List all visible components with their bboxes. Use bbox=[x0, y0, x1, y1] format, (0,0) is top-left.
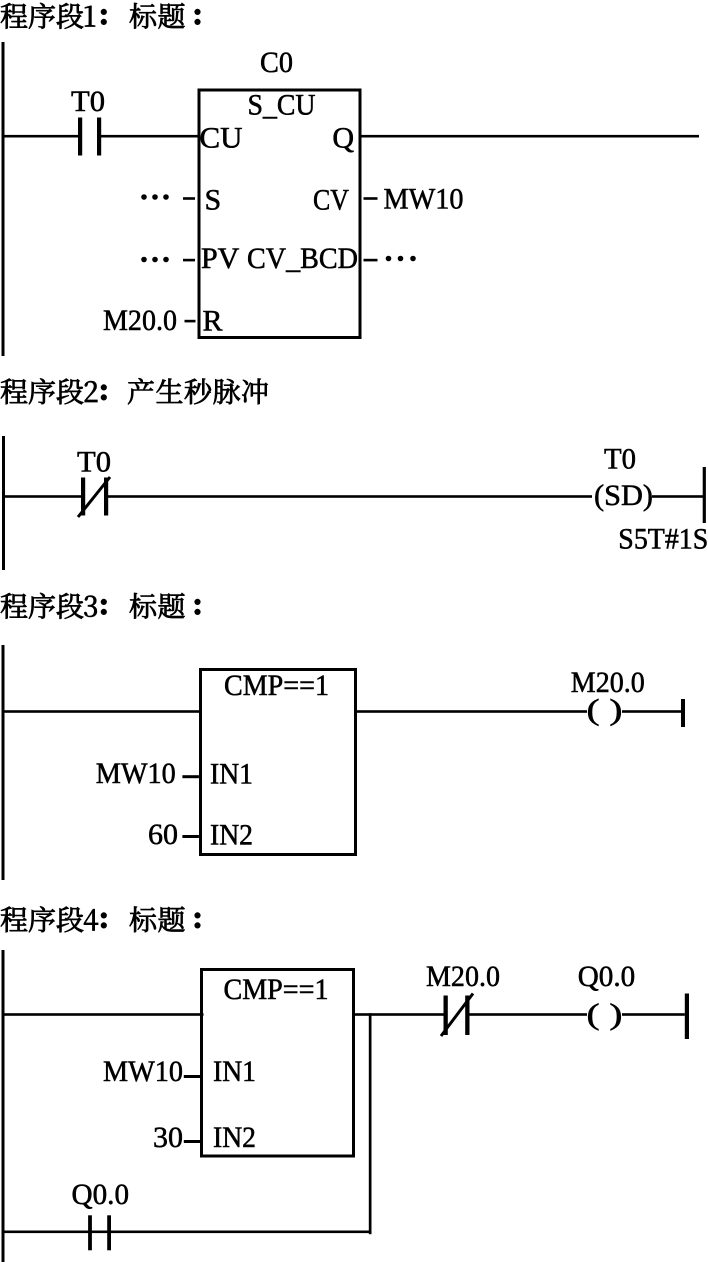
svg-text:M20.0: M20.0 bbox=[426, 960, 500, 993]
svg-text:T0: T0 bbox=[71, 85, 105, 118]
NC contact M20.0 bbox=[441, 994, 473, 1037]
svg-text:PV: PV bbox=[201, 242, 240, 275]
counter box C0 bbox=[199, 90, 360, 338]
svg-text:IN2: IN2 bbox=[210, 819, 253, 852]
wire contact to coil Q0.0 bbox=[470, 1013, 588, 1016]
stub input R bbox=[185, 320, 196, 323]
right power rail 2 bbox=[703, 467, 706, 523]
svg-text:MW10: MW10 bbox=[96, 757, 176, 790]
svg-text:M20.0: M20.0 bbox=[103, 304, 177, 337]
right power rail 3 bbox=[681, 699, 685, 727]
network 2 title bbox=[1, 378, 268, 404]
ellipsis input PV bbox=[141, 257, 169, 263]
svg-text:( ): ( ) bbox=[587, 694, 623, 727]
svg-text:60: 60 bbox=[148, 818, 178, 851]
ellipsis input S bbox=[141, 194, 169, 200]
left power rail 1 bbox=[2, 42, 5, 356]
stub input IN1 bbox=[182, 775, 199, 778]
network 1 title bbox=[1, 3, 200, 29]
stub input PV bbox=[183, 259, 195, 262]
svg-text:(SD): (SD) bbox=[594, 479, 653, 512]
stub input IN2 bbox=[184, 1140, 201, 1143]
svg-text:C0: C0 bbox=[260, 46, 293, 79]
wire rail to contact T0 bbox=[2, 135, 79, 138]
svg-text:S: S bbox=[205, 184, 222, 217]
stub input IN1 bbox=[184, 1075, 201, 1078]
svg-text:CMP==1: CMP==1 bbox=[224, 669, 329, 702]
wire coil to right rail bbox=[622, 1013, 685, 1016]
stub input IN2 bbox=[182, 835, 199, 838]
wire output Q bbox=[360, 135, 699, 138]
svg-text:IN1: IN1 bbox=[213, 1055, 256, 1088]
wire contact T0 to counter box bbox=[101, 135, 199, 138]
svg-text:CV: CV bbox=[313, 184, 349, 217]
comparator box bbox=[202, 970, 354, 1157]
svg-text:T0: T0 bbox=[77, 446, 111, 479]
NC contact T0 bbox=[78, 477, 110, 517]
network 3 title bbox=[1, 593, 200, 619]
svg-text:S5T#1S: S5T#1S bbox=[618, 523, 708, 556]
wire contact to coil SD bbox=[108, 495, 592, 498]
svg-text:S_CU: S_CU bbox=[248, 89, 316, 122]
wire box to contact M20.0 bbox=[353, 1013, 444, 1016]
svg-text:( ): ( ) bbox=[587, 998, 623, 1031]
stub input S bbox=[183, 197, 195, 200]
contact Q0.0 bbox=[88, 1215, 111, 1250]
wire box to coil M20.0 bbox=[356, 710, 588, 713]
network 4 title bbox=[1, 906, 200, 932]
stub output CV_BCD bbox=[364, 259, 378, 262]
svg-text:IN2: IN2 bbox=[213, 1121, 256, 1154]
wire rail to comparator box bbox=[2, 1013, 204, 1016]
left power rail 4 bbox=[2, 950, 5, 1262]
svg-text:MW10: MW10 bbox=[103, 1055, 183, 1088]
wire rail to comparator box bbox=[2, 710, 201, 713]
svg-text:IN1: IN1 bbox=[210, 758, 253, 791]
svg-text:Q0.0: Q0.0 bbox=[72, 1178, 130, 1211]
wire branch bottom bbox=[2, 1231, 372, 1234]
svg-text:CU: CU bbox=[200, 122, 243, 155]
svg-text:30: 30 bbox=[153, 1121, 183, 1154]
svg-text:Q0.0: Q0.0 bbox=[578, 960, 636, 993]
comparator box bbox=[201, 670, 356, 855]
left power rail 2 bbox=[2, 436, 5, 570]
svg-text:R: R bbox=[203, 305, 223, 338]
svg-text:T0: T0 bbox=[604, 443, 636, 476]
contact T0 bbox=[78, 118, 101, 156]
svg-text:CMP==1: CMP==1 bbox=[224, 973, 329, 1006]
svg-text:Q: Q bbox=[332, 122, 354, 155]
right power rail 4 bbox=[685, 994, 689, 1040]
wire coil to right rail bbox=[622, 710, 681, 713]
svg-text:MW10: MW10 bbox=[384, 183, 464, 216]
ellipsis output CV_BCD bbox=[386, 256, 416, 262]
svg-text:CV_BCD: CV_BCD bbox=[247, 242, 358, 275]
wire coil to right rail bbox=[652, 495, 703, 498]
branch wire down bbox=[369, 1013, 372, 1234]
stub output CV bbox=[364, 197, 378, 200]
left power rail 3 bbox=[2, 645, 5, 880]
wire rail to contact T0 bbox=[2, 495, 81, 498]
